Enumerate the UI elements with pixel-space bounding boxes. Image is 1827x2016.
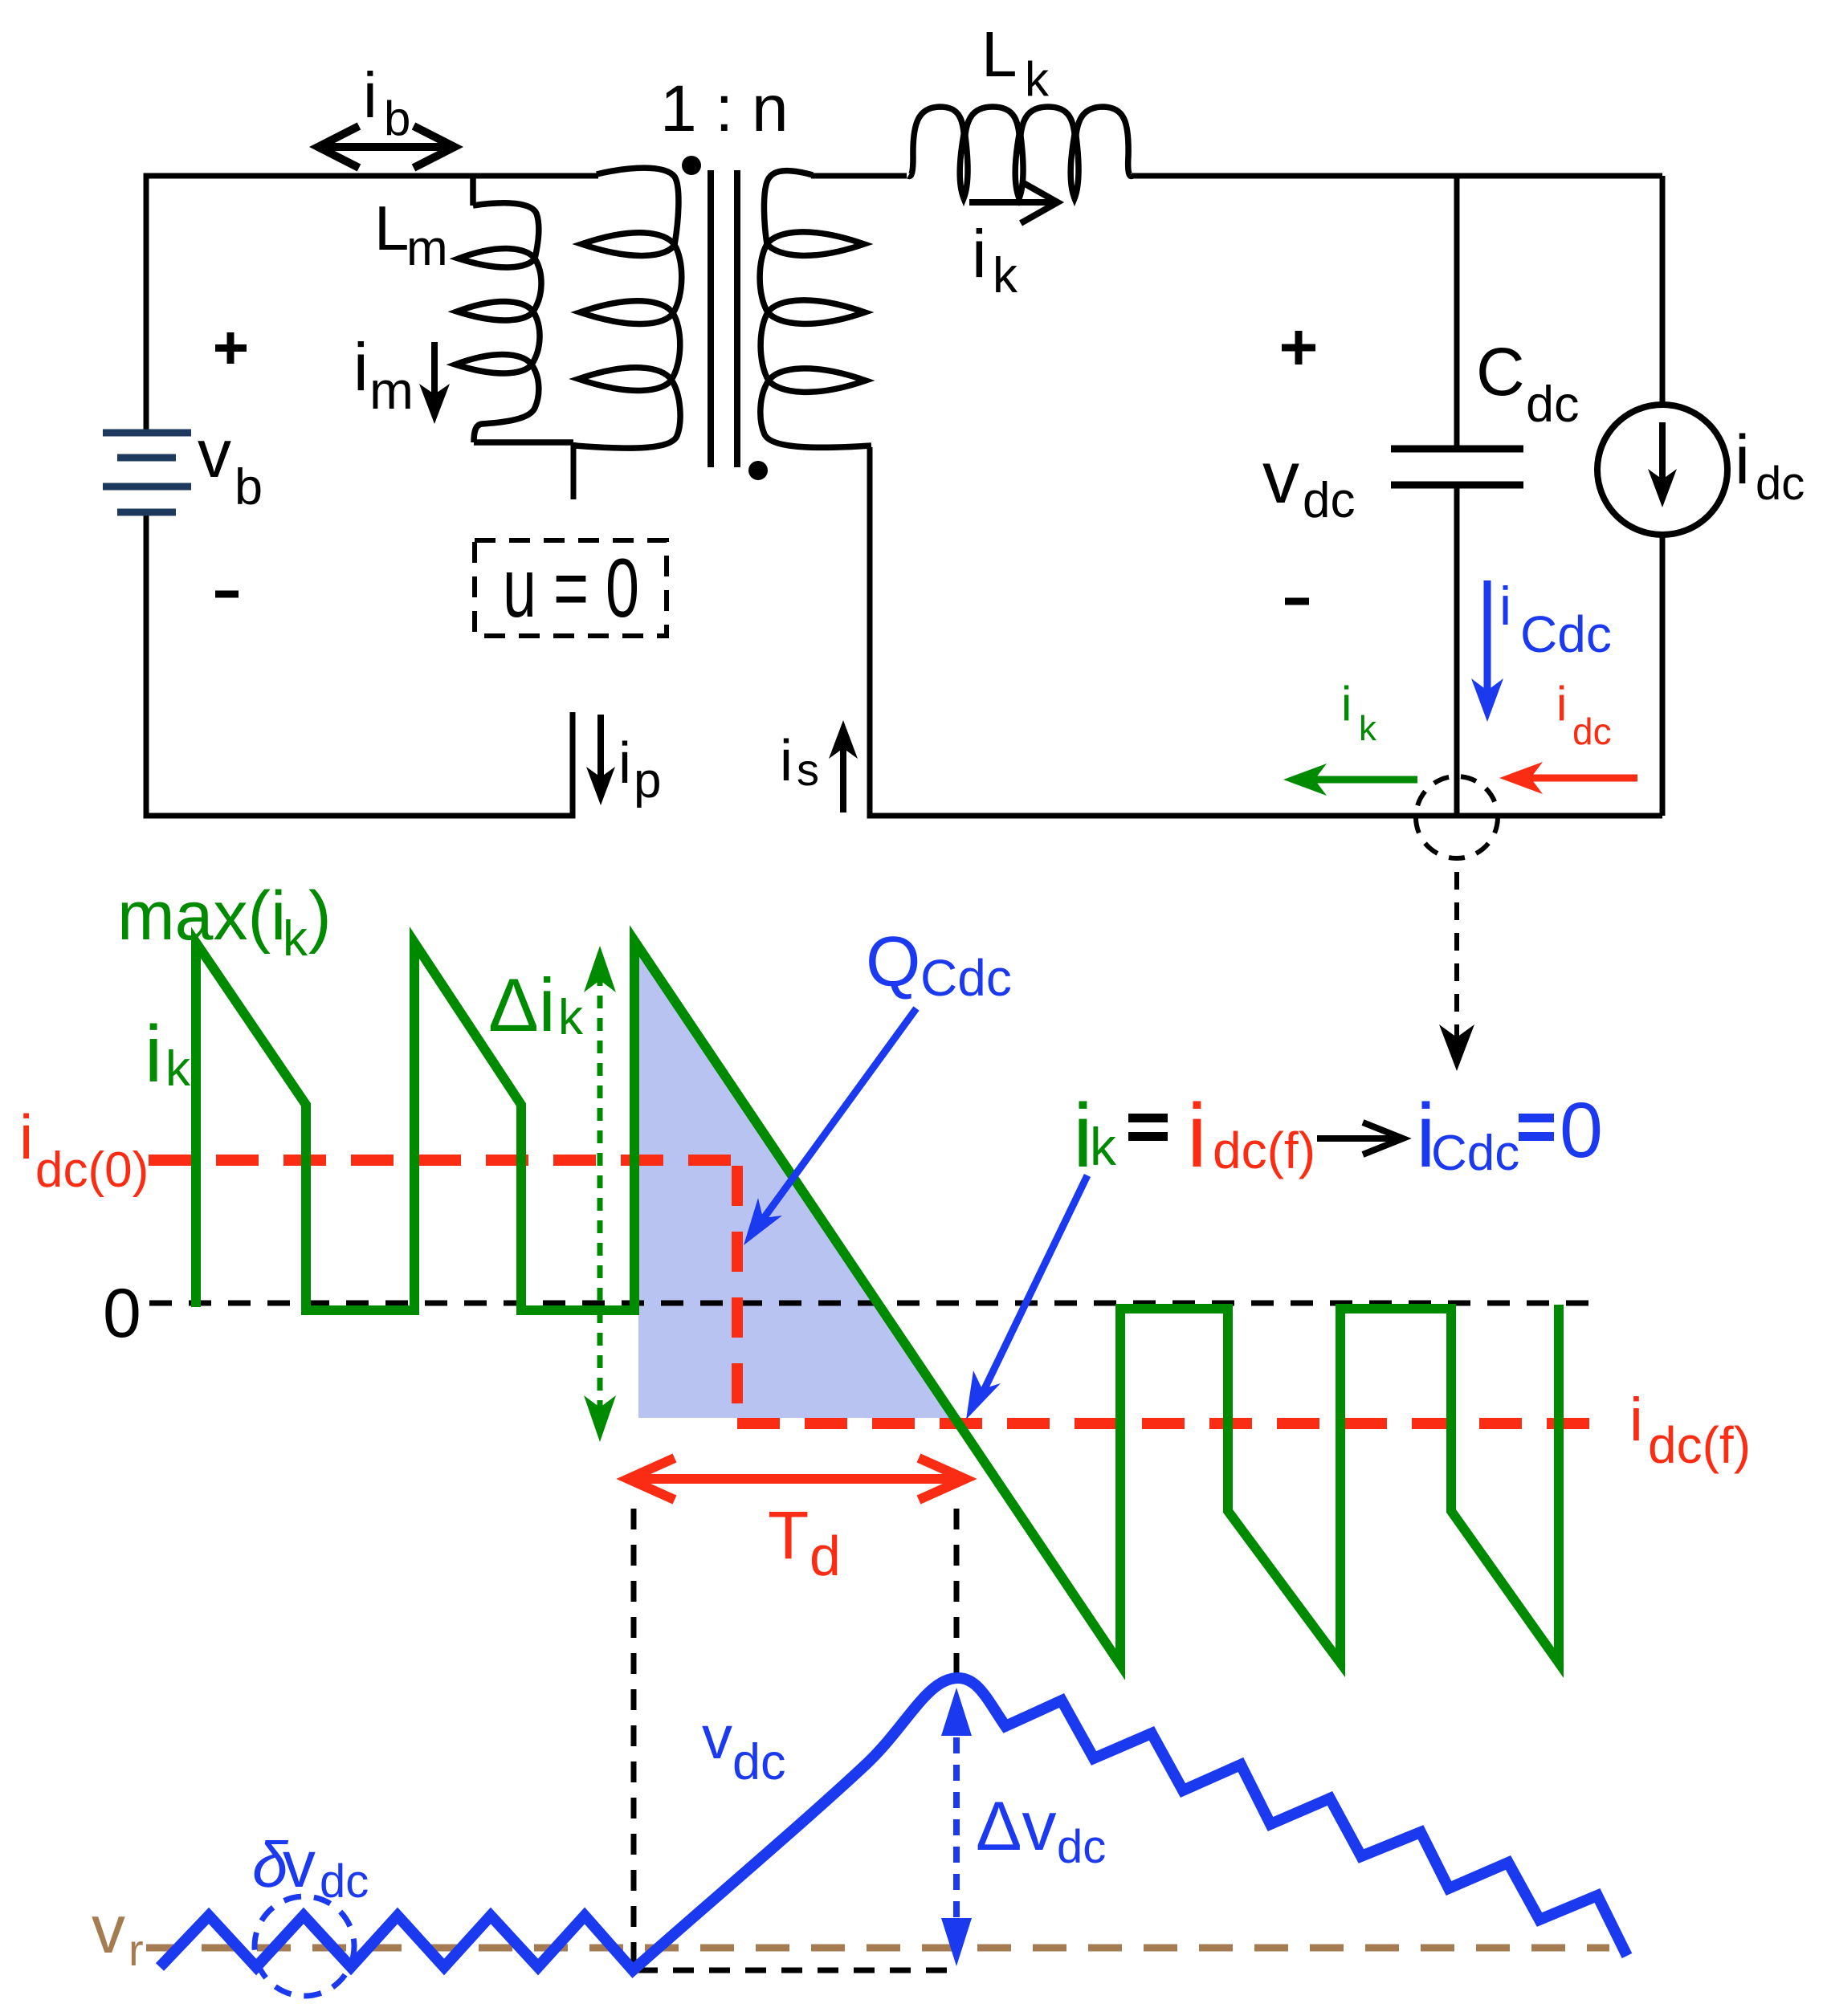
svg-text:i: i bbox=[618, 731, 631, 796]
svg-text:Cdc: Cdc bbox=[1431, 1126, 1519, 1181]
i_dc(f) red dashed level bbox=[737, 1418, 1604, 1429]
dashed blue circle (ripple) bbox=[255, 1896, 354, 1996]
label + (battery) bbox=[215, 332, 247, 364]
svg-text:v: v bbox=[283, 1828, 316, 1901]
label i_dc (source) bbox=[1735, 422, 1805, 510]
label small-delta v_dc bbox=[252, 1828, 369, 1908]
wire: Cdc branch lower bbox=[1454, 485, 1460, 816]
svg-text:Δv: Δv bbox=[976, 1788, 1056, 1865]
blue arrow to crossing point bbox=[966, 1175, 1087, 1419]
label v_dc (waveform) bbox=[702, 1704, 786, 1790]
u = 0 dashed box bbox=[475, 540, 667, 636]
label Q_Cdc bbox=[866, 922, 1012, 1007]
label v_dc bbox=[1262, 437, 1355, 528]
battery V_b bbox=[103, 433, 191, 512]
svg-text:v: v bbox=[198, 416, 231, 491]
i_s arrow bbox=[829, 720, 858, 813]
svg-text:L: L bbox=[981, 18, 1017, 90]
wire: secondary bottom down and right bottom rail bbox=[870, 447, 1662, 816]
svg-text:Cdc: Cdc bbox=[920, 949, 1012, 1007]
svg-text:dc: dc bbox=[1526, 377, 1580, 433]
i_k arrow (under Lk) bbox=[969, 181, 1058, 223]
svg-text:): ) bbox=[308, 878, 332, 955]
svg-text:Q: Q bbox=[866, 922, 920, 1001]
svg-text:L: L bbox=[374, 193, 409, 263]
svg-text:0: 0 bbox=[1560, 1086, 1603, 1174]
label i_k (under Lk) bbox=[972, 216, 1018, 303]
svg-text:s: s bbox=[797, 744, 819, 795]
svg-text:1 : n: 1 : n bbox=[660, 72, 789, 145]
wire: secondary top to Lk bbox=[811, 173, 907, 179]
label i_Cdc = 0 annotation bbox=[1416, 1085, 1603, 1186]
current source arrow bbox=[1648, 422, 1677, 507]
dashed circle node bbox=[1416, 776, 1498, 858]
dashed arrow from node to plot bbox=[1439, 872, 1474, 1071]
svg-text:dc(0): dc(0) bbox=[35, 1142, 149, 1198]
svg-text:k: k bbox=[1359, 709, 1377, 748]
zero axis dashed line bbox=[149, 1301, 1602, 1306]
svg-text:i: i bbox=[19, 1102, 33, 1172]
label + (vdc) bbox=[1282, 331, 1315, 365]
inductor Lk bbox=[908, 107, 1132, 198]
svg-text:Cdc: Cdc bbox=[1520, 605, 1612, 663]
v_dc blue waveform bbox=[160, 1678, 1627, 1970]
svg-text:k: k bbox=[558, 990, 584, 1045]
svg-text:i: i bbox=[1556, 677, 1567, 731]
svg-text:i: i bbox=[1341, 677, 1352, 731]
v_r brown dashed level bbox=[146, 1945, 1609, 1952]
green ik waveform bbox=[196, 941, 1559, 1664]
inductor Lm winding bbox=[455, 176, 573, 442]
svg-text:k: k bbox=[165, 1041, 191, 1097]
svg-text:v: v bbox=[92, 1892, 125, 1967]
T_d red double arrow bbox=[628, 1458, 965, 1500]
wire: current source branch lower bbox=[1660, 535, 1666, 816]
svg-text:dc: dc bbox=[732, 1734, 786, 1790]
svg-text:i: i bbox=[363, 59, 377, 131]
label - (vdc) bbox=[1285, 598, 1309, 605]
svg-text:i: i bbox=[1735, 422, 1750, 499]
label v_b bbox=[198, 416, 263, 515]
i_k green arrow (at node) bbox=[1283, 764, 1417, 796]
svg-text:i: i bbox=[353, 329, 369, 405]
label - (battery) bbox=[215, 591, 239, 598]
label i_dc (node) bbox=[1556, 677, 1612, 752]
svg-text:b: b bbox=[234, 459, 263, 515]
delta i_k green dashed double arrow bbox=[584, 946, 616, 1442]
svg-text:i: i bbox=[780, 729, 793, 793]
svg-text:u = 0: u = 0 bbox=[503, 542, 639, 635]
svg-text:max(i: max(i bbox=[117, 878, 286, 955]
label L_k bbox=[981, 18, 1050, 106]
svg-text:k: k bbox=[993, 248, 1018, 303]
svg-text:T: T bbox=[768, 1497, 809, 1573]
wire: primary loop bottom bbox=[146, 512, 573, 816]
label i_dc(f) bbox=[1629, 1386, 1751, 1474]
i_b double arrow bbox=[318, 126, 455, 168]
svg-text:v: v bbox=[702, 1704, 732, 1772]
current source i_dc circle bbox=[1597, 405, 1727, 535]
svg-text:dc(f): dc(f) bbox=[1648, 1416, 1751, 1474]
secondary dot bbox=[748, 461, 768, 480]
transformer primary winding bbox=[575, 168, 682, 448]
svg-text:v: v bbox=[1262, 437, 1299, 519]
svg-text:i: i bbox=[145, 1009, 162, 1099]
wire: primary winding bottom stub bbox=[571, 442, 577, 499]
label i_b bbox=[363, 59, 410, 145]
svg-text:m: m bbox=[369, 360, 414, 420]
svg-text:k: k bbox=[283, 911, 308, 967]
label i_s bbox=[780, 729, 819, 795]
svg-text:C: C bbox=[1476, 334, 1525, 409]
i_dc red arrow (at node) bbox=[1499, 762, 1637, 794]
wire: current source branch upper bbox=[1660, 176, 1666, 405]
label i_dc(0) bbox=[19, 1102, 149, 1198]
svg-text:m: m bbox=[406, 221, 448, 276]
label C_dc bbox=[1476, 334, 1580, 433]
i_p arrow bbox=[586, 715, 615, 805]
svg-text:dc: dc bbox=[1057, 1821, 1106, 1873]
svg-text:dc: dc bbox=[1572, 711, 1612, 752]
wire: top rail Lk to right corner bbox=[1132, 173, 1662, 179]
label delta v_dc bbox=[976, 1788, 1106, 1873]
label delta i_k bbox=[488, 963, 584, 1047]
svg-text:d: d bbox=[810, 1525, 841, 1587]
Q_Cdc blue arrow bbox=[744, 1008, 916, 1245]
svg-text:Δi: Δi bbox=[488, 963, 556, 1047]
svg-text:p: p bbox=[634, 753, 661, 808]
svg-text:k: k bbox=[1090, 1117, 1117, 1176]
svg-text:0: 0 bbox=[103, 1275, 141, 1352]
label i_m bbox=[353, 329, 414, 420]
svg-text:r: r bbox=[128, 1924, 144, 1975]
label L_m bbox=[374, 193, 448, 276]
svg-text:i: i bbox=[1629, 1386, 1643, 1454]
red dashed vertical step bbox=[732, 1166, 743, 1418]
i_Cdc blue arrow bbox=[1471, 580, 1503, 722]
label i_Cdc bbox=[1499, 576, 1612, 663]
svg-text:dc(f): dc(f) bbox=[1213, 1122, 1315, 1179]
i_m arrow bbox=[419, 342, 450, 424]
transformer secondary winding bbox=[760, 171, 871, 448]
label i_p bbox=[618, 731, 661, 808]
label v_r bbox=[92, 1892, 144, 1975]
svg-text:dc: dc bbox=[1756, 458, 1805, 510]
capacitor Cdc bbox=[1391, 449, 1523, 485]
svg-text:dc: dc bbox=[1303, 473, 1355, 528]
i_dc(0) red dashed level bbox=[149, 1155, 737, 1166]
delta v_dc blue dashed double arrow bbox=[941, 1688, 972, 1966]
label i_k = i_dc(f) annotation bbox=[1073, 1085, 1315, 1186]
svg-text:i: i bbox=[1187, 1085, 1207, 1186]
black dashed vertical (Td left / vdc start) bbox=[631, 1509, 637, 1963]
black dashed horizontal (bottom ref) bbox=[637, 1968, 958, 1973]
label i_k (node) bbox=[1341, 677, 1377, 748]
label i_k (waveform) bbox=[145, 1009, 191, 1099]
black arrow (annotation) bbox=[1317, 1122, 1403, 1155]
Q_Cdc shaded triangle bbox=[638, 944, 955, 1418]
label max(i_k) bbox=[117, 878, 332, 967]
transformer core bbox=[711, 170, 737, 467]
wire: Cdc branch upper bbox=[1454, 176, 1460, 449]
primary dot bbox=[682, 156, 701, 175]
svg-text:k: k bbox=[1025, 52, 1050, 106]
label T_d bbox=[768, 1497, 841, 1587]
wire: primary loop left/top bbox=[146, 176, 598, 433]
svg-text:i: i bbox=[1499, 576, 1511, 637]
black dashed vertical (Td right / vdc peak) bbox=[954, 1509, 960, 1680]
svg-text:b: b bbox=[384, 92, 410, 145]
svg-text:i: i bbox=[972, 216, 987, 291]
